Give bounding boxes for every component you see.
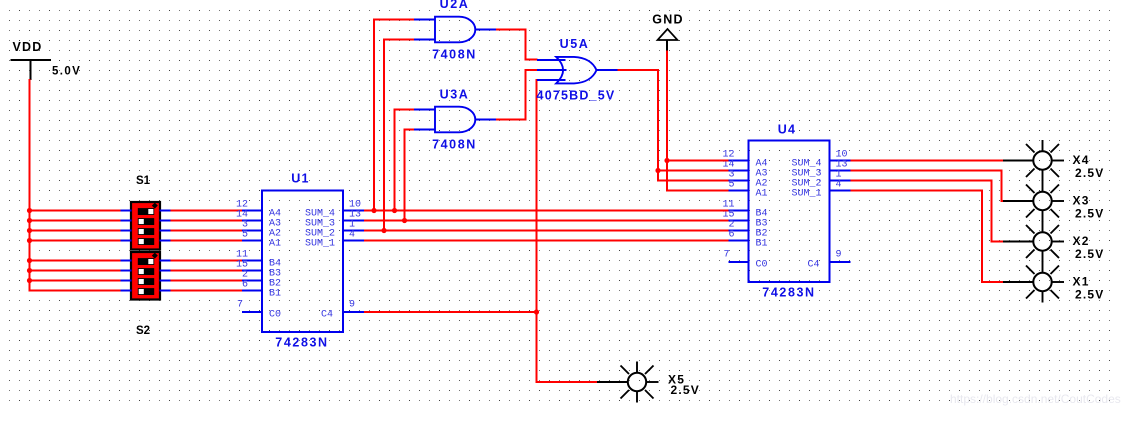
svg-text:2.5V: 2.5V [1075,166,1105,180]
pin U5A output [597,69,618,71]
wire VDD to switch row y=260.5 [29,260,122,262]
ground symbol GND [658,29,678,51]
lamp X1 [1003,262,1064,303]
pin U4 A2 (pin 3) [728,170,767,190]
wire switch to U1 y=280.5 [171,280,243,282]
junction U5A to A3/A2 [655,168,660,173]
wire switch to U1 y=210.5 [171,210,243,212]
pin stub switch left y=230.5 [121,230,132,232]
svg-text:S1: S1 [136,175,151,187]
svg-text:4: 4 [836,180,842,191]
wire U2A input A tap horizontal [373,19,415,21]
watermark [950,392,1121,406]
wire U5A output to U4 [618,70,729,181]
svg-text:C0: C0 [269,310,281,321]
pin U1 A2 (pin 3) [242,220,281,240]
pin U3A input 1 [414,109,435,111]
wire U4 SUM_1 to lamp X1 [851,191,1005,283]
svg-text:2.5V: 2.5V [671,383,701,397]
svg-text:U1: U1 [291,172,309,186]
svg-text:9: 9 [349,300,355,311]
pin stub switch right y=260.5 [160,260,171,262]
wire VDD to switch row y=210.5 [29,210,122,212]
junction U2A input A tap [371,208,376,213]
wire GND branch to U4 A4 [667,160,729,162]
junction U3A input B tap [402,218,407,223]
pin U4 A3 (pin 14) [722,160,767,180]
pin stub switch left y=220.5 [121,220,132,222]
junction U3A input A tap [392,208,397,213]
lamp X5 [597,362,659,403]
pin U4 SUM_2 (pin 1) [791,170,850,190]
junction VDD bus y=210.5 [27,208,32,213]
svg-text:4: 4 [349,230,355,241]
wire U2A input B tap vertical [383,40,385,231]
wire U1 SUM to U4 B y=210.5 [364,210,729,212]
wire VDD vertical bus [30,79,122,291]
pin U4 B1 (pin 6) [728,230,767,250]
pin U4 B4 (pin 11) [722,200,767,220]
svg-text:7408N: 7408N [432,138,477,152]
power symbol VDD [11,59,52,80]
wire U3A input A tap vertical [394,110,396,211]
pin U4 C0 (pin 7) [723,250,767,271]
pin U2A input 2 [414,39,435,41]
svg-text:6: 6 [728,230,734,241]
wire U4 SUM_4 to lamp X4 [851,160,1005,162]
pin U2A output [475,29,496,31]
junction GND to A4/A1 [664,158,669,163]
junction VDD bus y=230.5 [27,228,32,233]
wire U1 C4 node to U5A input 3 and lamp X5 [537,80,598,382]
pin U3A output [475,119,496,121]
pin U1 B3 (pin 15) [236,260,281,280]
pin stub switch left y=240.5 [121,240,132,242]
svg-text:S2: S2 [136,325,150,337]
AND gate U2A 7408N [435,17,475,43]
pin U1 B1 (pin 6) [242,280,281,300]
lamp X3 [1003,181,1064,222]
svg-text:B1: B1 [269,289,281,300]
wire U4 SUM_3 to lamp X3 [851,171,1005,202]
wire GND to U4 [667,51,729,191]
pin U4 C4 (pin 9) [807,250,850,271]
junction VDD bus y=280.5 [27,278,32,283]
svg-text:X4: X4 [1073,153,1090,167]
pin U5A input 3 [537,79,566,81]
svg-text:2.5V: 2.5V [1075,207,1105,221]
wire U2A output to U5A input 1 [496,30,538,60]
pin stub switch right y=220.5 [160,220,171,222]
pin U4 A1 (pin 5) [728,180,767,200]
pin U5A input 1 [537,59,566,61]
svg-text:7408N: 7408N [432,48,477,62]
wire U3A output to U5A input 2 [496,70,538,120]
svg-text:SUM_1: SUM_1 [791,189,821,200]
pin stub switch left y=260.5 [121,260,132,262]
svg-text:5: 5 [242,230,248,241]
junction U2A input B tap [381,228,386,233]
pin stub switch left y=290.5 [121,290,132,292]
pin U1 B4 (pin 11) [236,250,281,270]
IC U4 74283N body [749,141,830,283]
svg-text:SUM_1: SUM_1 [305,239,335,250]
pin U5A input 2 [537,69,567,71]
pin stub switch right y=270.5 [160,270,171,272]
pin U1 SUM_2 (pin 1) [305,220,364,240]
svg-text:2.5V: 2.5V [1075,288,1105,302]
wire switch to U1 y=270.5 [171,270,243,272]
svg-text:B1: B1 [756,239,768,250]
svg-text:74283N: 74283N [762,286,815,300]
svg-text:U5A: U5A [560,37,590,51]
svg-text:7: 7 [237,300,243,311]
pin U4 SUM_1 (pin 4) [791,180,850,200]
wire U3A input B tap horizontal [404,129,415,131]
svg-text:74283N: 74283N [275,336,328,350]
pin U1 B2 (pin 2) [242,270,281,290]
wire VDD to switch row y=270.5 [29,270,122,272]
junction VDD bus y=270.5 [27,268,32,273]
wire U1 SUM to U4 B y=220.5 [364,220,729,222]
AND gate U3A 7408N [435,107,475,133]
pin U1 C0 (pin 7) [237,300,281,321]
pin stub switch right y=290.5 [160,290,171,292]
pin stub switch right y=240.5 [160,240,171,242]
wire VDD to switch row y=220.5 [29,220,122,222]
pin U4 B2 (pin 2) [728,220,767,240]
svg-text:GND: GND [652,13,683,27]
wire switch to U1 y=290.5 [171,290,243,292]
svg-text:7: 7 [723,250,729,261]
wire U3A input B tap vertical [404,130,406,221]
svg-text:5: 5 [728,180,734,191]
junction VDD bus y=240.5 [27,238,32,243]
lamp X4 [1003,140,1064,181]
pin U1 C4 (pin 9) [321,300,364,321]
pin U4 B3 (pin 15) [722,210,767,230]
svg-text:U3A: U3A [440,88,470,102]
svg-text:5.0V: 5.0V [52,66,81,78]
pin U4 SUM_3 (pin 13) [791,160,850,180]
wire U2A input B tap horizontal [383,39,415,41]
wire U4 SUM_2 to lamp X2 [851,181,1005,242]
svg-text:X2: X2 [1073,234,1090,248]
svg-text:4075BD_5V: 4075BD_5V [537,89,616,103]
wire U1 C4 to node [364,311,537,313]
pin stub switch right y=210.5 [160,210,171,212]
wire switch to U1 y=220.5 [171,220,243,222]
svg-text:U4: U4 [778,123,796,137]
wire VDD to switch row y=230.5 [29,230,122,232]
OR gate U5A 4075BD_5V [556,57,596,84]
svg-text:U2A: U2A [440,0,470,11]
wire U2A input A tap vertical [373,20,375,211]
wire U5A branch to U4 A3 [658,170,729,172]
pin U1 A4 (pin 12) [236,200,281,220]
svg-text:A1: A1 [269,239,281,250]
pin U4 SUM_4 (pin 10) [791,150,850,170]
pin U1 SUM_4 (pin 10) [305,200,364,220]
pin U1 SUM_1 (pin 4) [305,230,364,250]
lamp X2 [1003,221,1064,262]
pin U1 A3 (pin 14) [236,210,281,230]
wire U1 SUM to U4 B y=240.5 [364,240,729,242]
wire switch to U1 y=260.5 [171,260,243,262]
svg-text:C4: C4 [321,310,333,321]
wire VDD to switch row y=240.5 [29,240,122,242]
junction VDD bus y=260.5 [27,258,32,263]
pin stub switch left y=270.5 [121,270,132,272]
svg-text:2.5V: 2.5V [1075,247,1105,261]
svg-text:9: 9 [836,250,842,261]
svg-text:X3: X3 [1073,194,1090,208]
pin U4 A4 (pin 12) [722,150,767,170]
svg-text:C4: C4 [807,260,819,271]
svg-text:VDD: VDD [13,40,43,54]
pin U2A input 1 [414,19,435,21]
pin stub switch left y=280.5 [121,280,132,282]
wire U3A input A tap horizontal [394,109,415,111]
pin stub switch right y=280.5 [160,280,171,282]
wire switch to U1 y=240.5 [171,240,243,242]
DIP switch S2 [131,252,160,300]
svg-text:A1: A1 [756,189,768,200]
svg-text:6: 6 [242,280,248,291]
wire VDD to switch row y=280.5 [29,280,122,282]
pin U1 A1 (pin 5) [242,230,281,250]
pin U3A input 2 [414,129,435,131]
pin stub switch left y=210.5 [121,210,132,212]
junction C4 node [534,309,539,314]
wire U1 SUM to U4 B y=230.5 [364,230,729,232]
svg-text:C0: C0 [756,260,768,271]
wire switch to U1 y=230.5 [171,230,243,232]
DIP switch S1 [131,202,160,250]
IC U1 74283N body [262,191,343,333]
pin stub switch right y=230.5 [160,230,171,232]
svg-text:X1: X1 [1073,275,1090,289]
pin U1 SUM_3 (pin 13) [305,210,364,230]
junction VDD bus y=220.5 [27,218,32,223]
